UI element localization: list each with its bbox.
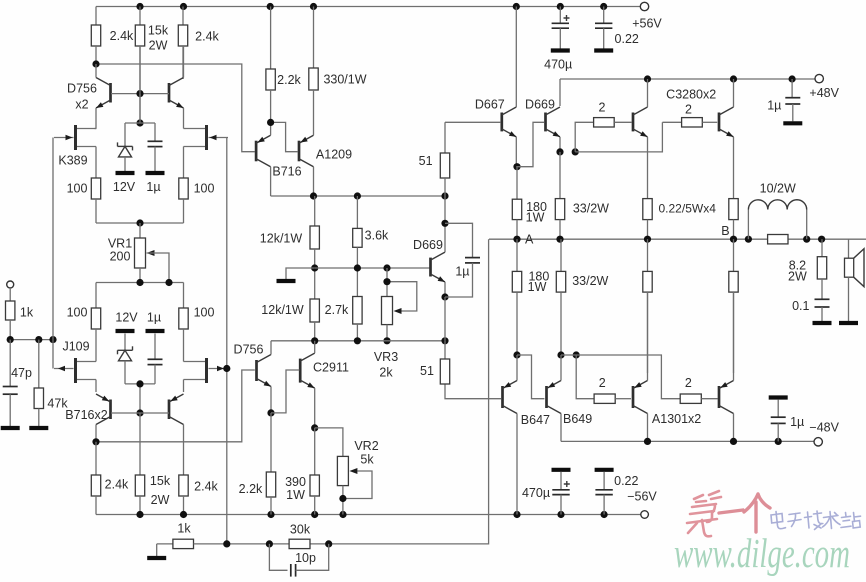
wire right source down xyxy=(184,380,187,393)
wire right collector down xyxy=(183,425,185,476)
wire 0.22 lower bottom lead xyxy=(603,495,605,515)
wire right emitter down xyxy=(183,108,185,129)
capacitor 0.22 +56V xyxy=(595,23,612,28)
svg-text:D756: D756 xyxy=(67,81,97,95)
wire branch to first base xyxy=(575,122,593,152)
wire bias bottom link xyxy=(125,384,155,413)
wire VR1 wiper xyxy=(147,253,170,283)
ground 1u +48V xyxy=(783,121,802,125)
node D756 emitter junction xyxy=(267,409,274,416)
svg-text:2.4k: 2.4k xyxy=(195,29,219,43)
svg-text:0.1: 0.1 xyxy=(792,299,809,313)
svg-text:100: 100 xyxy=(67,181,88,195)
wire feedback ground leg xyxy=(156,544,158,556)
terminal -48V xyxy=(814,438,822,446)
resistor 100 left xyxy=(91,178,100,223)
wire D667 collector to +56V xyxy=(515,7,517,108)
wire 47p lead xyxy=(9,340,11,387)
wire 470u lower bottom lead xyxy=(560,495,562,515)
resistor 2.4k upper-right xyxy=(178,7,187,80)
wire A1209 collector xyxy=(313,167,315,196)
wire cap bottom xyxy=(154,365,156,384)
svg-text:15k: 15k xyxy=(148,23,169,37)
svg-text:1W: 1W xyxy=(526,210,545,224)
node lower bias junction xyxy=(136,380,143,416)
ground 0.22 bottom xyxy=(595,468,614,472)
capacitor 1u bias lower xyxy=(148,359,163,364)
capacitor 0.22 -56V xyxy=(595,490,612,495)
resistor 12k/1W lower xyxy=(310,268,319,341)
svg-text:2: 2 xyxy=(599,376,606,390)
wire base link lower xyxy=(111,412,169,414)
svg-text:51: 51 xyxy=(419,154,433,168)
svg-text:1µ: 1µ xyxy=(790,415,804,429)
wire divider ground tap xyxy=(286,268,315,279)
node base junction xyxy=(136,90,143,97)
resistor 30k xyxy=(289,539,310,548)
wire left emitter down xyxy=(95,108,97,129)
svg-text:2: 2 xyxy=(685,103,692,117)
wire input node line xyxy=(10,339,53,341)
svg-text:+56V: +56V xyxy=(632,17,662,31)
wire bootstrap loop bottom xyxy=(445,263,473,297)
wire B649 base bus xyxy=(517,355,544,399)
wire zener lead xyxy=(124,334,126,351)
ground zobel xyxy=(813,321,832,325)
wire cap to ground xyxy=(154,147,156,171)
svg-text:B647: B647 xyxy=(521,413,550,427)
transistor C2911 xyxy=(300,353,315,388)
wire feedback line xyxy=(227,239,489,544)
wire 0.22 lower top lead xyxy=(603,472,605,490)
wire D667 emitter down xyxy=(515,137,517,167)
wire VAS rail xyxy=(271,340,445,342)
node dots on +48V rail xyxy=(644,75,796,82)
resistor 0.22 lower first xyxy=(643,239,652,373)
wire zobel ground lead xyxy=(821,307,823,321)
wire 470u bottom lead xyxy=(559,28,561,48)
wire zener to ground xyxy=(124,157,126,171)
wire B649 collector down xyxy=(560,414,562,442)
ground 47k xyxy=(29,426,48,430)
terminal +56V xyxy=(640,2,648,10)
wire B716 emitter node xyxy=(271,122,299,151)
node driver emitter junctions xyxy=(556,148,578,155)
resistor 2.2k upper xyxy=(266,7,275,123)
ground 470u top xyxy=(551,48,570,52)
node feedback junctions xyxy=(223,540,332,547)
node dots on +56V rail xyxy=(136,3,607,10)
svg-text:VR2: VR2 xyxy=(354,439,378,453)
watermark characters dianzijishuzhan xyxy=(771,511,861,530)
capacitor 470u -56V xyxy=(552,490,569,495)
node tail junction xyxy=(136,219,143,226)
node base bus dots xyxy=(354,264,391,271)
svg-text:A: A xyxy=(525,233,534,247)
node B716 emitter junction xyxy=(267,119,274,126)
wire D756 collector xyxy=(270,341,272,355)
plus sign 470u bottom xyxy=(564,481,570,487)
svg-text:B716x2: B716x2 xyxy=(65,408,107,422)
wire C3280-2 collector xyxy=(733,79,735,107)
wire A1301 base bus xyxy=(561,355,680,399)
svg-text:2.7k: 2.7k xyxy=(325,303,349,317)
ground feedback xyxy=(147,556,166,560)
wire bias branch xyxy=(125,94,155,147)
node D667 emitter junction xyxy=(513,163,520,170)
svg-text:VR1: VR1 xyxy=(108,236,132,250)
wire rail to R1 xyxy=(95,7,97,26)
zener 12V lower xyxy=(118,346,133,361)
node input junctions xyxy=(7,336,57,343)
potentiometer VR3 2k xyxy=(382,297,402,325)
capacitor 1u bootstrap xyxy=(465,258,480,263)
resistor 330/1W xyxy=(309,7,318,126)
wire right drain up xyxy=(184,128,187,130)
wire left drain up xyxy=(95,329,97,362)
svg-text:1µ: 1µ xyxy=(147,310,161,324)
resistor 8.2/2W xyxy=(817,239,826,299)
watermark character di4 xyxy=(687,491,721,536)
svg-text:A1209: A1209 xyxy=(316,148,352,162)
wire 0.22 top lead xyxy=(603,7,605,24)
node divider mid xyxy=(311,264,318,271)
wire base link xyxy=(111,93,169,95)
resistor 100 lower-right xyxy=(179,283,188,330)
transistor D667 xyxy=(502,107,517,137)
wire D669 emitter to VAS rail xyxy=(444,297,446,341)
transistor B649 xyxy=(547,381,562,414)
wire C3280-1 collector xyxy=(647,79,649,107)
svg-text:2W: 2W xyxy=(149,38,168,52)
wire 0.22 bottom lead xyxy=(603,28,605,48)
wire VR1 top xyxy=(139,223,141,238)
wire 1u48 bottom xyxy=(792,104,794,121)
wire VR2 wiper loop xyxy=(343,471,372,499)
svg-text:1µ: 1µ xyxy=(767,99,781,113)
wire D669 collector up xyxy=(559,79,561,106)
resistor 47k xyxy=(34,340,43,426)
wire cap lead xyxy=(154,334,156,360)
svg-text:2.4k: 2.4k xyxy=(110,29,134,43)
svg-text:12k/1W: 12k/1W xyxy=(261,303,304,317)
wire 1u-48 top lead xyxy=(777,400,779,418)
svg-text:B716: B716 xyxy=(272,164,301,178)
svg-text:3.6k: 3.6k xyxy=(365,228,389,242)
wire output rail xyxy=(489,238,866,240)
wire zener bottom xyxy=(124,361,126,384)
transistor D756 right xyxy=(169,78,184,109)
transistor C3280 second xyxy=(719,107,734,137)
svg-text:2.4k: 2.4k xyxy=(194,479,218,493)
wire A1301-1 emitter up xyxy=(647,292,649,380)
resistor 51 upper xyxy=(440,153,449,196)
svg-text:www.dilge.com: www.dilge.com xyxy=(674,530,850,576)
transistor A1209 xyxy=(299,135,314,167)
node C2911 emitter junction xyxy=(311,424,318,431)
wire -48V rail xyxy=(561,440,814,442)
node mid rail dots xyxy=(310,192,449,199)
wire B649 emitter up xyxy=(560,355,562,381)
resistor 2 base lower second xyxy=(680,394,718,403)
svg-text:0.22: 0.22 xyxy=(614,474,638,488)
svg-text:2: 2 xyxy=(599,101,606,115)
svg-text:C2911: C2911 xyxy=(313,360,349,374)
wire 47p to ground xyxy=(9,394,11,426)
resistor 2.2k lower xyxy=(266,413,275,515)
speaker xyxy=(845,249,865,287)
jfet K389 right xyxy=(186,125,228,150)
wire lower tail rail xyxy=(96,282,184,284)
svg-text:470µ: 470µ xyxy=(544,57,572,71)
wire bootstrap loop top xyxy=(445,223,473,257)
ground speaker xyxy=(839,321,858,325)
wire VR1 bottom xyxy=(139,268,141,283)
node VR3 bottom xyxy=(383,337,390,344)
resistor 2 base first xyxy=(594,118,632,127)
wire 1u48 lead xyxy=(791,79,793,98)
svg-text:J109: J109 xyxy=(62,339,89,353)
wire D669 emitter down xyxy=(559,137,561,152)
svg-text:2W: 2W xyxy=(788,270,807,284)
ground 0.22 top xyxy=(594,48,613,52)
node dots on -56V rail xyxy=(136,511,607,518)
potentiometer VR2 5k xyxy=(337,456,357,485)
node bootstrap top xyxy=(441,220,448,227)
jfet J109 right xyxy=(186,358,228,383)
transistor C3280 first xyxy=(633,107,648,137)
svg-text:1µ: 1µ xyxy=(455,265,469,279)
node bias junction xyxy=(136,119,143,126)
ground below cap xyxy=(146,171,165,175)
svg-text:33/2W: 33/2W xyxy=(572,274,608,288)
wire signal gate line xyxy=(52,138,54,369)
node gate junctions xyxy=(223,365,230,372)
wire left source down xyxy=(95,380,97,393)
wire +48V rail xyxy=(560,78,815,80)
node driver base junctions lower xyxy=(513,351,579,358)
node dots on -48V rail xyxy=(644,438,782,445)
wire right collector xyxy=(183,46,185,78)
svg-text:−48V: −48V xyxy=(809,420,839,434)
wire C3280-1 emitter xyxy=(647,137,649,199)
wire inductor left leg xyxy=(747,210,749,240)
svg-text:D756: D756 xyxy=(234,342,264,356)
wire VR2 bottom xyxy=(342,486,344,515)
wire branch first A1301 base xyxy=(576,355,594,399)
resistor 15k/2W lower xyxy=(135,475,144,515)
resistor 2.4k lower-left xyxy=(91,442,100,515)
svg-text:1W: 1W xyxy=(528,280,547,294)
resistor 100 lower-left xyxy=(91,283,100,330)
jfet J109 left xyxy=(54,358,96,383)
wire speaker feed xyxy=(848,239,850,258)
wire 15k top link xyxy=(139,413,141,475)
capacitor 470u +56V xyxy=(552,23,569,28)
ground 1u -48V xyxy=(769,395,788,399)
resistor 2 base lower first xyxy=(594,394,631,403)
wire C2911 collector xyxy=(314,341,316,353)
svg-text:2k: 2k xyxy=(379,365,393,379)
wire B647 emitter up xyxy=(516,355,518,381)
svg-text:D667: D667 xyxy=(475,97,505,111)
svg-text:100: 100 xyxy=(194,305,215,319)
wire feedback gate line xyxy=(226,138,228,544)
wire A1301-2 collector down xyxy=(733,414,735,442)
inductor 10/2W xyxy=(748,200,806,210)
node VR1 junctions xyxy=(136,279,172,286)
resistor 0.22 lower second xyxy=(729,239,738,373)
svg-text:1k: 1k xyxy=(177,521,191,535)
node junction xyxy=(92,60,99,67)
resistor 33/2W upper xyxy=(555,199,564,240)
svg-text:−56V: −56V xyxy=(627,489,657,503)
wire D756 emitter down xyxy=(270,387,272,413)
terminal input xyxy=(7,281,14,288)
resistor 15k/2W upper xyxy=(135,7,144,94)
wire base bus upper outputs xyxy=(575,122,662,152)
svg-text:390: 390 xyxy=(285,475,306,489)
potentiometer VR1 200 xyxy=(135,238,155,268)
capacitor 1u -48V xyxy=(771,417,786,423)
resistor 0.22 upper first xyxy=(643,199,652,240)
wire VR2 top link xyxy=(315,428,343,457)
wire D669 base link xyxy=(516,122,544,166)
wire VR3 wiper loop xyxy=(387,282,417,311)
node VR2 bottom junction xyxy=(339,495,346,502)
svg-text:2W: 2W xyxy=(151,493,170,507)
wire C2911 base link xyxy=(271,370,299,413)
resistor 180/1W lower xyxy=(512,239,521,355)
resistor 390/1W xyxy=(310,428,319,515)
ground 470u bottom xyxy=(552,468,571,472)
svg-text:A1301x2: A1301x2 xyxy=(652,412,701,426)
watermark character yi1 xyxy=(719,510,743,513)
wire mid rail xyxy=(271,195,445,197)
terminal +48V xyxy=(815,74,823,82)
jfet K389 left xyxy=(54,125,96,150)
node VAS rail dots xyxy=(311,337,449,344)
capacitor 47p xyxy=(3,387,18,395)
svg-text:100: 100 xyxy=(194,181,215,195)
wire B647 collector down xyxy=(516,414,518,515)
wire base bus xyxy=(315,267,431,269)
resistor 1k feedback xyxy=(157,539,227,548)
wire VR3 bottom xyxy=(386,325,388,341)
wire 10p loop left xyxy=(269,544,287,570)
svg-text:C3280x2: C3280x2 xyxy=(666,87,716,101)
wire D667 base xyxy=(445,122,500,153)
svg-text:10p: 10p xyxy=(295,551,316,565)
svg-text:470µ: 470µ xyxy=(522,486,550,500)
wire left collector down xyxy=(95,425,97,442)
wire 470u top lead xyxy=(559,7,561,24)
resistor 2.4k upper-left xyxy=(91,25,100,64)
wire right drain up xyxy=(184,329,187,362)
ground divider xyxy=(277,279,296,283)
resistor damping parallel xyxy=(768,235,788,244)
svg-text:10/2W: 10/2W xyxy=(760,182,796,196)
wire A1209 emitter xyxy=(313,125,315,135)
resistor 33/2W lower xyxy=(556,239,565,355)
transistor B716 right xyxy=(169,394,184,425)
capacitor 10p xyxy=(291,564,296,577)
wire to lower 51 xyxy=(444,341,446,359)
svg-text:VR3: VR3 xyxy=(374,350,398,364)
resistor 0.22 upper second xyxy=(729,199,738,240)
wire left drain link xyxy=(95,128,97,130)
svg-text:2.2k: 2.2k xyxy=(277,73,301,87)
svg-text:330/1W: 330/1W xyxy=(323,72,366,86)
resistor 180/1W upper xyxy=(512,167,521,240)
svg-text:2.2k: 2.2k xyxy=(239,482,263,496)
wire left collector xyxy=(95,64,97,78)
watermark character ge4 xyxy=(744,494,770,532)
transistor A1301 first xyxy=(633,381,648,414)
svg-text:1µ: 1µ xyxy=(146,180,160,194)
capacitor 1u bias xyxy=(148,141,163,146)
capacitor 1u +48V xyxy=(785,98,800,104)
wire collector node to second stage xyxy=(96,64,255,152)
svg-text:1k: 1k xyxy=(20,305,34,319)
svg-text:1W: 1W xyxy=(286,488,305,502)
wire 10p loop right xyxy=(296,544,329,570)
wire B716 collector xyxy=(270,167,272,196)
transistor A1301 second xyxy=(719,381,734,414)
svg-text:12V: 12V xyxy=(113,180,136,194)
transistor D669 bias xyxy=(431,252,446,282)
resistor 3.6k xyxy=(353,196,362,268)
wire tail rail upper xyxy=(96,222,184,224)
svg-text:2.4k: 2.4k xyxy=(105,477,129,491)
wire right source to R xyxy=(184,147,187,179)
svg-text:D669: D669 xyxy=(525,97,555,111)
transistor B716 left xyxy=(96,394,111,425)
wire +56V top rail xyxy=(96,6,640,8)
transistor D669 driver xyxy=(546,107,561,137)
transistor B647 xyxy=(503,381,518,414)
svg-text:D669: D669 xyxy=(413,238,443,252)
wire D669 emitter to 33R xyxy=(559,152,561,199)
resistor 1k input xyxy=(6,301,15,340)
svg-text:30k: 30k xyxy=(290,522,311,536)
svg-text:x2: x2 xyxy=(75,97,88,111)
node lower collector junction xyxy=(92,438,99,445)
wire A1301-1 collector down xyxy=(647,414,649,442)
svg-text:51: 51 xyxy=(420,364,434,378)
wire base bias drop xyxy=(139,46,141,123)
svg-text:2: 2 xyxy=(685,376,692,390)
wire inductor right leg xyxy=(806,210,808,240)
svg-text:K389: K389 xyxy=(58,153,87,167)
resistor 2 base second xyxy=(662,118,717,127)
wire C2911 emitter down xyxy=(314,388,316,428)
node VR3 wiper junction xyxy=(383,278,390,285)
svg-text:47k: 47k xyxy=(47,396,68,410)
svg-text:B: B xyxy=(721,224,729,238)
wire D669 emitter down xyxy=(444,282,446,297)
resistor 2.7k xyxy=(353,268,362,341)
wire left source to R xyxy=(95,147,97,179)
wire D669 collector up xyxy=(444,196,446,252)
transistor D756 driver xyxy=(257,355,272,387)
wire lower 51 to B647 base xyxy=(445,384,501,399)
resistor 51 lower xyxy=(440,359,449,384)
ground above zener lower xyxy=(116,329,135,333)
plus sign 470u top xyxy=(564,15,570,21)
zener 12V xyxy=(118,142,133,157)
wire speaker ground lead xyxy=(848,277,850,321)
